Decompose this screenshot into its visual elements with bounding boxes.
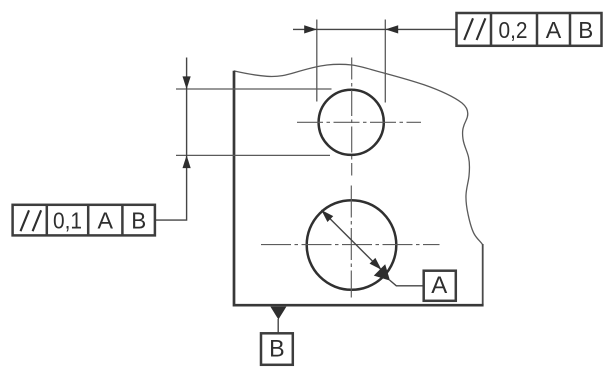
svg-text:B: B — [578, 17, 593, 43]
svg-text:B: B — [131, 207, 146, 233]
datum feature triangle A on large hole — [374, 264, 390, 280]
svg-text:0,1: 0,1 — [53, 208, 82, 234]
arrow pointing left at right zone line — [385, 25, 398, 33]
arrow pointing up at lower zone line — [183, 155, 191, 168]
svg-text:0,2: 0,2 — [499, 17, 528, 43]
wire: upper tolerance zone line — [176, 88, 332, 90]
wire: left vertical tolerance zone line — [316, 20, 318, 102]
wire: large hole vertical centerline — [350, 186, 352, 298]
wire: top dimension leader line — [293, 28, 457, 30]
svg-text:A: A — [546, 17, 562, 43]
wire: stem to datum B box — [277, 319, 279, 333]
svg-text:B: B — [269, 336, 285, 363]
node: large hole circle — [307, 200, 397, 290]
wire: right edge straight segment — [482, 244, 484, 305]
datum label A box — [424, 271, 456, 301]
wire: left dimension leader line — [155, 58, 187, 221]
arrow pointing down at upper zone line — [183, 76, 191, 89]
svg-text:A: A — [431, 272, 447, 299]
svg-text:A: A — [98, 207, 114, 233]
wire: part outline left and bottom edges (thick) — [234, 71, 484, 305]
arrow pointing down-right at circle edge — [370, 258, 382, 270]
wire: leader to datum A box — [390, 280, 424, 286]
wire: large hole horizontal centerline — [261, 244, 440, 246]
wire: break line (wavy top and right edge of part) — [234, 64, 483, 244]
wire: lower tolerance zone line — [176, 154, 330, 156]
wire: right vertical tolerance zone line — [384, 20, 386, 103]
feature control frame: parallelism 0,1 A B (left) — [13, 205, 155, 236]
wire: small hole vertical centerline — [351, 58, 353, 176]
wire: small hole horizontal centerline — [297, 121, 421, 123]
node: small hole circle — [319, 90, 384, 155]
datum label B box — [261, 333, 293, 365]
wire: diameter dimension line in large hole — [321, 210, 381, 269]
datum feature triangle B on bottom edge — [270, 307, 286, 320]
arrow pointing right at left zone line — [304, 25, 317, 33]
feature control frame: parallelism 0,2 A B (top right) — [457, 13, 602, 46]
arrow pointing up-left at circle edge — [321, 210, 333, 222]
